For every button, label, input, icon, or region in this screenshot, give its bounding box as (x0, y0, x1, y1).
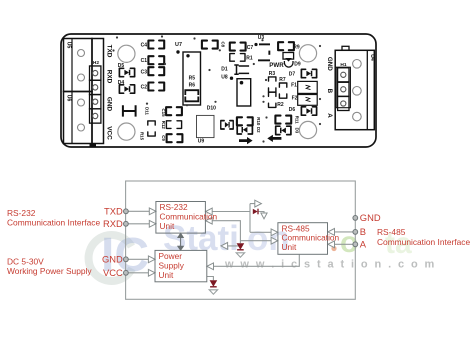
svg-text:C8: C8 (221, 41, 226, 47)
diode D3 (276, 126, 291, 134)
svg-text:Communication Interface: Communication Interface (377, 237, 470, 247)
svg-text:R1: R1 (246, 56, 253, 62)
vias (112, 35, 321, 142)
resistor R9 (278, 42, 294, 50)
svg-text:D6: D6 (289, 107, 296, 113)
resistor R1 (230, 54, 245, 62)
svg-text:RS-485: RS-485 (377, 227, 406, 237)
node circles left (124, 209, 129, 214)
svg-text:H2: H2 (93, 60, 99, 66)
svg-text:F1: F1 (291, 82, 297, 88)
resistor R11 (275, 116, 291, 124)
svg-text:U4: U4 (369, 54, 375, 61)
svg-text:R5: R5 (189, 76, 196, 82)
link RS232-power double arrow (178, 233, 183, 250)
svg-text:TXD: TXD (106, 45, 113, 58)
svg-text:VCC: VCC (103, 267, 123, 278)
box power supply unit (155, 250, 207, 281)
wire GND (128, 258, 148, 260)
resistor pack R5 R6 (183, 52, 201, 105)
wire A line (334, 243, 353, 245)
svg-text:Unit: Unit (282, 242, 297, 252)
capacitor C8 (202, 41, 218, 49)
svg-text:R6: R6 (189, 83, 196, 89)
svg-text:D9: D9 (294, 62, 301, 68)
resistor R10 (237, 117, 253, 125)
capacitor C7 (230, 43, 246, 51)
svg-text:Communication Interface: Communication Interface (7, 218, 100, 228)
svg-text:C1: C1 (141, 58, 148, 64)
svg-text:R12: R12 (161, 121, 166, 130)
svg-text:GND: GND (106, 97, 113, 112)
top tab (342, 46, 349, 50)
node circles right (353, 216, 358, 221)
svg-text:D11: D11 (145, 107, 150, 115)
diode D8 (221, 121, 233, 129)
wire to RS485 input A (250, 231, 271, 233)
wire VCC (128, 272, 148, 274)
mounting holes (118, 45, 135, 62)
svg-text:C2: C2 (141, 85, 148, 91)
svg-text:U7: U7 (175, 42, 182, 48)
svg-text:C9: C9 (161, 135, 166, 141)
wire RS485 power feed (214, 255, 300, 267)
wire RXD (128, 223, 149, 225)
silk arrow right (239, 137, 253, 144)
right connector outline U4 (335, 50, 374, 129)
terminal block U6 (64, 92, 93, 144)
svg-text:PWR: PWR (269, 62, 284, 69)
svg-text:R3: R3 (269, 71, 276, 77)
svg-text:R7: R7 (279, 77, 286, 83)
board outline (61, 34, 376, 147)
svg-text:F2: F2 (292, 95, 298, 101)
svg-text:D1: D1 (221, 66, 228, 72)
svg-text:w w w . i c s t a t i o n . c: w w w . i c s t a t i o n . c o m (224, 259, 436, 271)
crystal D11 (123, 105, 136, 116)
svg-text:GND: GND (326, 57, 333, 71)
svg-text:C7: C7 (247, 45, 254, 51)
box RS-485 unit (278, 223, 328, 255)
svg-text:B: B (326, 89, 333, 94)
svg-text:TXD: TXD (104, 206, 123, 217)
svg-text:R15: R15 (140, 132, 145, 141)
wire B line (334, 231, 353, 233)
svg-text:RS-232: RS-232 (7, 208, 36, 218)
svg-text:C4: C4 (141, 43, 148, 49)
svg-text:U9: U9 (198, 139, 205, 145)
diode to gnd mid (253, 209, 258, 215)
terminal screw holes (78, 50, 85, 57)
wire power ground branch (207, 277, 214, 281)
svg-text:D3: D3 (295, 128, 300, 134)
svg-text:DC 5-30V: DC 5-30V (7, 256, 44, 266)
diode D10 (237, 79, 251, 106)
diode D2 (237, 126, 252, 134)
LED D9 (283, 53, 294, 60)
bottom tab (90, 144, 97, 147)
svg-text:Working Power Supply: Working Power Supply (7, 266, 92, 276)
svg-text:R9: R9 (293, 45, 300, 51)
diode+gnd on lower net (237, 244, 244, 250)
silk arrow left (267, 135, 281, 142)
wire TXD (128, 210, 149, 212)
svg-text:D7: D7 (289, 72, 296, 78)
svg-text:A: A (360, 239, 367, 250)
svg-text:U5: U5 (66, 42, 72, 49)
svg-text:U6: U6 (66, 95, 72, 102)
svg-text:Unit: Unit (160, 221, 175, 231)
resistor R2 (269, 92, 276, 107)
svg-text:C3: C3 (141, 69, 148, 75)
wire RS232 to RS485 upper (212, 204, 264, 233)
svg-text:A: A (326, 113, 333, 118)
svg-text:D2: D2 (256, 127, 261, 133)
WATERMARK (89, 219, 437, 282)
svg-text:R2: R2 (277, 102, 284, 108)
svg-text:R10: R10 (256, 117, 261, 126)
terminal block U5 (64, 39, 93, 92)
red labels (159, 202, 340, 280)
svg-text:D10: D10 (207, 105, 216, 111)
svg-text:GND: GND (360, 212, 381, 223)
svg-text:B: B (360, 226, 366, 237)
arrowheads (149, 208, 156, 215)
svg-text:RXD: RXD (106, 70, 113, 84)
svg-text:GND: GND (102, 254, 123, 265)
svg-text:R11: R11 (295, 116, 300, 124)
svg-text:RXD: RXD (103, 218, 123, 229)
terminal body strip (92, 39, 104, 144)
outer system box (126, 181, 356, 299)
svg-text:U8: U8 (221, 75, 228, 81)
IC U9 (197, 115, 215, 137)
diode+gnd under power box (210, 281, 217, 287)
svg-text:VCC: VCC (106, 126, 113, 140)
terminal holes (353, 60, 362, 69)
wire RS232 lower net (212, 221, 271, 246)
svg-text:Unit: Unit (159, 270, 174, 280)
box RS-232 unit (156, 202, 206, 234)
